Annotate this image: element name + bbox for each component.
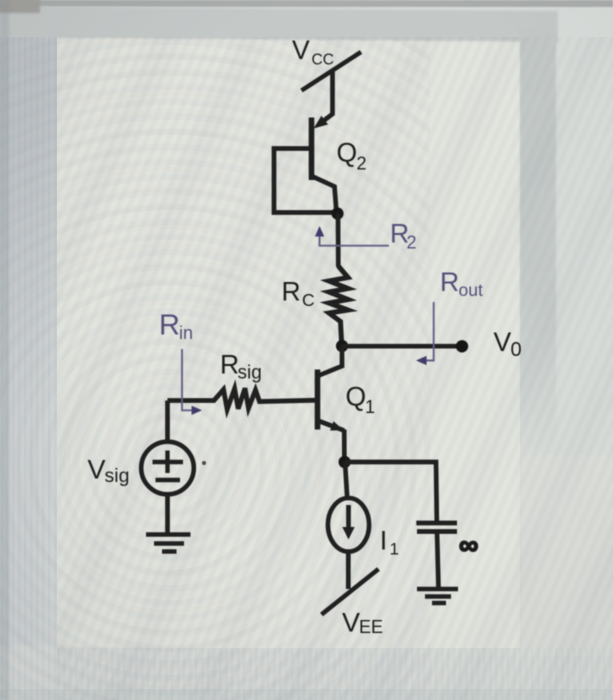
marker R2 line <box>320 233 390 246</box>
svg-text:sig: sig <box>105 465 130 487</box>
ground (Vsig) <box>146 535 191 552</box>
transistor Q1 base bar <box>315 370 321 430</box>
svg-text:I: I <box>380 526 388 556</box>
node B (collector of Q1 / output node) <box>336 340 348 352</box>
current source I1 ellipse <box>328 498 369 552</box>
svg-text:CC: CC <box>312 52 334 69</box>
svg-text:sig: sig <box>238 363 262 384</box>
svg-text:R: R <box>159 310 180 342</box>
transistor Q2 emitter arrowhead <box>314 116 329 129</box>
wire Vsig top <box>165 401 170 443</box>
marker Rin line <box>182 349 196 410</box>
net VCC supply slash <box>302 52 362 91</box>
svg-text:R: R <box>282 277 301 307</box>
svg-text:0: 0 <box>511 339 522 361</box>
svg-text:C: C <box>302 290 315 310</box>
wire Q2 base-collector loop <box>274 149 338 213</box>
svg-text:R: R <box>440 267 459 297</box>
svg-text:2: 2 <box>357 154 367 174</box>
node V0 terminal dot <box>456 340 468 352</box>
transistor Q2 collector <box>312 176 337 213</box>
node C (Q1 emitter node) <box>339 456 351 468</box>
wire VCC to Q2 emitter <box>319 70 333 124</box>
wire Vsig to ground <box>165 494 170 534</box>
svg-text:V: V <box>494 327 512 357</box>
wire I1 to VEE <box>346 552 351 590</box>
svg-text:V: V <box>88 455 106 485</box>
moire: concentric arcs left <box>0 37 430 700</box>
resistor Rsig zigzag and base wire <box>168 388 318 409</box>
transistor Q1 emitter <box>318 421 345 463</box>
current source I1 arrow <box>346 505 351 529</box>
resistor RC zigzag <box>329 266 348 345</box>
left screen edge shade <box>0 0 9 700</box>
net VEE supply slash <box>322 569 379 615</box>
marker Rout line <box>421 302 434 361</box>
svg-text:R: R <box>220 350 239 380</box>
capacitor C plates <box>416 523 457 532</box>
transistor Q2 base bar <box>309 118 315 181</box>
ink speck <box>202 461 206 465</box>
svg-text:Q: Q <box>337 138 358 168</box>
svg-text:2: 2 <box>407 233 417 253</box>
svg-text:∞: ∞ <box>459 530 478 560</box>
svg-text:in: in <box>179 323 193 343</box>
purple measurement annotations <box>182 226 434 415</box>
svg-text:1: 1 <box>365 397 375 417</box>
wire output to V0 <box>342 344 461 349</box>
vertical stripe texture on outer bands <box>0 37 57 700</box>
wire capacitor to ground <box>437 532 439 590</box>
svg-text:EE: EE <box>359 617 383 637</box>
source Vsig circle <box>141 442 194 495</box>
svg-text:Q: Q <box>346 382 367 412</box>
transistor Q1 emitter arrowhead <box>330 421 344 430</box>
source Vsig plus-minus <box>153 451 184 481</box>
ground (capacitor) <box>417 589 458 603</box>
svg-text:V: V <box>342 608 360 638</box>
node A (Q2 collector node) <box>331 207 343 219</box>
wire node C to I1 <box>345 462 347 499</box>
svg-text:V: V <box>292 35 310 65</box>
svg-text:out: out <box>459 280 483 300</box>
wire node C to capacitor <box>345 462 437 521</box>
transistor Q1 collector <box>318 346 343 376</box>
wire node A to RC <box>336 214 341 268</box>
svg-text:1: 1 <box>390 540 399 559</box>
